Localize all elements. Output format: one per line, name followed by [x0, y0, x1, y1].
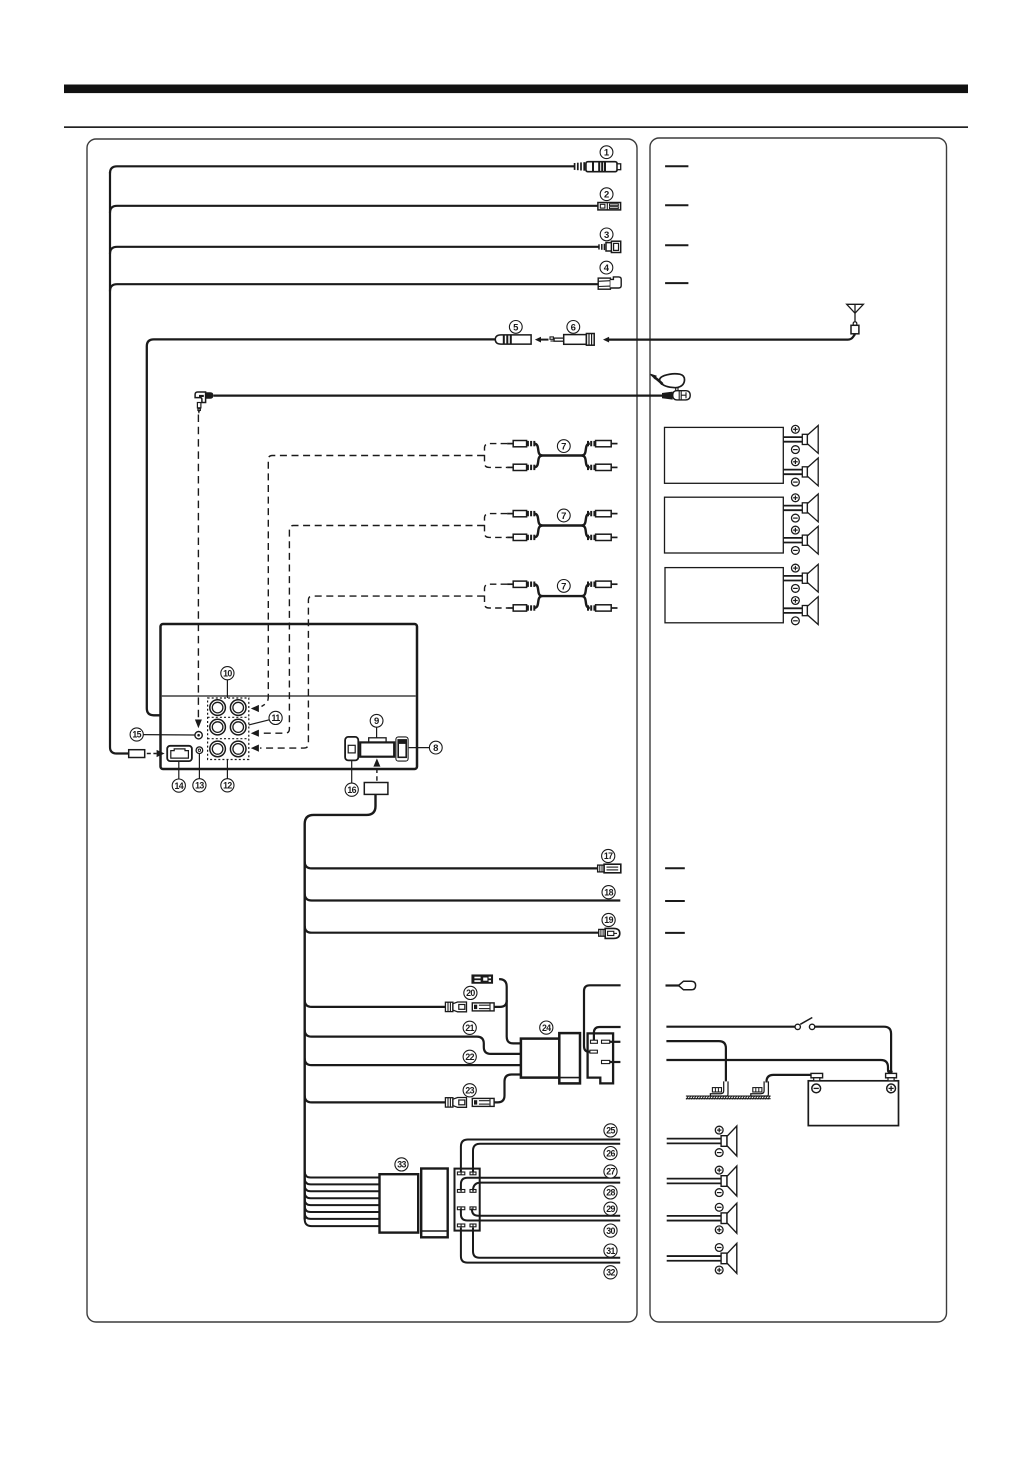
list dash 18: [665, 900, 685, 902]
RCA jack row3 right: [230, 741, 246, 757]
wire 23: [305, 1096, 445, 1103]
wire 18 (bare): [305, 894, 621, 901]
RCA cable 7 (top): [484, 441, 617, 471]
list dash 1: [665, 165, 688, 167]
svg-text:31: 31: [606, 1246, 615, 1256]
wire 27: [461, 1178, 620, 1191]
harness plug into 14: [129, 750, 145, 758]
switch wire to battery plus: [815, 1027, 891, 1072]
label 18: [602, 886, 615, 899]
left panel border: [87, 139, 637, 1322]
svg-text:27: 27: [606, 1167, 615, 1177]
RCA jack row1 left: [210, 700, 226, 716]
wire 32: [461, 1228, 620, 1263]
label 7 top: [557, 440, 570, 453]
amp1 speaker B minus: [792, 478, 800, 486]
label 26: [604, 1147, 617, 1160]
amp1 speaker B: [783, 458, 818, 486]
svg-text:17: 17: [604, 851, 613, 861]
svg-text:16: 16: [347, 785, 356, 795]
illumination lead plug: [666, 981, 696, 990]
svg-text:9: 9: [374, 716, 379, 727]
amp3 speaker B plus: [792, 597, 800, 605]
amp1 speaker B plus: [792, 458, 800, 466]
RCA cable 7 (middle): [484, 511, 617, 541]
rear speaker 1 minus: [715, 1149, 723, 1157]
connector 3: [599, 241, 621, 252]
RCA jack row3 left: [210, 741, 226, 757]
wire 20 tail to tee: [494, 1000, 507, 1007]
svg-text:18: 18: [604, 887, 613, 897]
rear speaker 2 minus: [715, 1189, 723, 1197]
wire 30: [461, 1209, 620, 1221]
iso connector 33: [380, 1169, 448, 1238]
power connector body: [588, 1033, 614, 1083]
junction dot at battery plus: [889, 1070, 893, 1074]
label 10 with leader: [221, 667, 234, 698]
battery wire direct: [666, 1060, 890, 1073]
battery negative lead: [767, 1075, 812, 1083]
svg-text:12: 12: [223, 781, 232, 791]
label 4: [600, 261, 613, 274]
wire 23 tail into fuse block: [494, 1075, 521, 1103]
main power harness wire from plug down: [305, 794, 376, 1219]
wire 17: [305, 862, 598, 869]
list dash 2: [665, 204, 688, 206]
dashed route cable1 to jacks row1: [251, 456, 484, 713]
microphone cable: [214, 394, 665, 396]
label 13 with leader: [193, 754, 206, 792]
wire 31: [473, 1228, 620, 1258]
label 21: [463, 1021, 476, 1034]
rear speaker 1: [667, 1126, 737, 1156]
rear speaker 4: [667, 1243, 737, 1273]
rear speaker 2 plus: [715, 1166, 723, 1174]
harness bundle vertical wire: [110, 172, 129, 754]
wire 21: [305, 1030, 521, 1054]
wire 2: [110, 206, 598, 213]
arrow between 5 and 6: [535, 337, 549, 343]
ground wire to chassis bolt 1: [666, 1041, 726, 1083]
label 31: [604, 1244, 617, 1257]
connector 16 (extension socket): [345, 737, 358, 761]
svg-text:11: 11: [272, 713, 281, 723]
amp2 speaker A plus: [792, 494, 800, 502]
label 25: [604, 1124, 617, 1137]
svg-text:33: 33: [397, 1160, 406, 1170]
speaker harness connector block: [455, 1169, 480, 1231]
amp1 speaker A: [783, 426, 818, 454]
amp3 speaker B: [783, 597, 818, 625]
svg-text:3: 3: [604, 230, 609, 241]
svg-text:7: 7: [561, 581, 566, 592]
mic jack 15: [195, 732, 202, 739]
list dash 19: [665, 932, 685, 934]
amp1 speaker A minus: [792, 446, 800, 454]
RCA jack row2 right: [230, 719, 246, 735]
rear speaker 2: [667, 1166, 737, 1196]
connector 17 (male spade): [598, 864, 621, 873]
label 1: [600, 146, 613, 159]
svg-text:5: 5: [513, 322, 519, 333]
label 28: [604, 1186, 617, 1199]
power connector pin slots: [590, 1040, 610, 1063]
amp2 speaker A: [783, 494, 818, 522]
wire 22: [305, 1058, 521, 1065]
list dash 17: [665, 867, 685, 869]
svg-text:15: 15: [132, 730, 141, 740]
connector 8 (usb memory): [396, 737, 408, 761]
rear speaker 4 minus: [715, 1244, 723, 1252]
amp1 speaker A plus: [792, 425, 800, 433]
ignition switch: [795, 1018, 815, 1030]
label 15 with leader: [130, 728, 195, 741]
label 6: [567, 321, 580, 334]
label 12 with leader: [221, 760, 234, 792]
bullet pair 23: [445, 1098, 494, 1108]
svg-text:7: 7: [561, 511, 566, 522]
chassis bolt 1: [710, 1081, 728, 1096]
svg-text:1: 1: [604, 148, 610, 159]
rear speaker 4 plus: [715, 1266, 723, 1274]
wire 5 lead (antenna extension): [147, 339, 495, 715]
label 7 bottom: [557, 580, 570, 593]
svg-text:29: 29: [606, 1204, 615, 1214]
svg-text:2: 2: [604, 190, 609, 201]
RCA jack row1 right: [230, 700, 246, 716]
svg-text:25: 25: [606, 1126, 615, 1136]
ground stub wire: [610, 1061, 621, 1063]
label 17: [602, 849, 615, 862]
connector 9 (usb socket on unit): [360, 738, 394, 757]
right panel border: [650, 138, 947, 1322]
label 3: [600, 228, 613, 241]
svg-text:6: 6: [571, 322, 576, 333]
amplifier box 3: [665, 568, 783, 623]
bullet pair 20: [445, 1002, 494, 1012]
wire 20: [305, 1000, 445, 1007]
connector 14 (harness socket): [167, 746, 192, 761]
svg-text:23: 23: [465, 1086, 474, 1096]
label 30: [604, 1224, 617, 1237]
svg-text:8: 8: [433, 743, 438, 754]
tee wire up to mated pair and down to fuse block: [499, 979, 521, 1043]
svg-text:19: 19: [604, 915, 613, 925]
rear speaker 3: [667, 1203, 737, 1233]
label 8 with leader: [409, 741, 442, 754]
speaker harness fan-out wires: [305, 1172, 380, 1227]
wire 28: [473, 1183, 620, 1191]
label 19: [602, 913, 615, 926]
label 14 with leader: [172, 761, 185, 792]
amplifier box 2: [665, 497, 784, 553]
connector 4: [598, 277, 621, 289]
amp2 speaker B: [783, 526, 818, 554]
arrow into 6 and antenna lead wire: [603, 334, 855, 342]
amp3 speaker A minus: [792, 585, 800, 593]
svg-text:14: 14: [175, 781, 184, 791]
label 7 middle: [557, 509, 570, 522]
amp3 speaker A plus: [792, 564, 800, 572]
svg-text:21: 21: [465, 1023, 474, 1033]
label 23: [463, 1084, 476, 1097]
RCA jack row2 left: [210, 719, 226, 735]
label 32: [604, 1266, 617, 1279]
connector 1 (S-video plug): [575, 162, 621, 172]
label 16 with leader: [345, 761, 358, 797]
dotted outline around preout jacks: [208, 698, 249, 760]
amplifier box 1: [665, 427, 784, 483]
connector 6 (antenna plug male): [550, 334, 594, 346]
svg-text:10: 10: [223, 668, 232, 678]
mated bullet pair (amp remote): [472, 975, 492, 983]
dashed route cable3 to jacks row3: [251, 596, 484, 752]
connector 5 (antenna jack female): [495, 335, 531, 344]
label 27: [604, 1165, 617, 1178]
svg-text:26: 26: [606, 1148, 615, 1158]
connector 2: [598, 203, 621, 210]
label 29: [604, 1202, 617, 1215]
wire 19: [305, 926, 599, 933]
accessory wire to ignition switch: [666, 1026, 795, 1028]
accessory wire up to panel edge: [594, 1027, 621, 1040]
amp3 speaker A: [783, 564, 818, 592]
svg-text:20: 20: [466, 988, 475, 998]
svg-text:7: 7: [561, 442, 566, 453]
wire 25: [461, 1140, 620, 1172]
wire 29: [472, 1209, 620, 1216]
list dash 3: [665, 244, 688, 246]
rear speaker 3 plus: [715, 1226, 723, 1234]
label 2: [600, 188, 613, 201]
list dash 4: [665, 282, 688, 284]
amp2 speaker A minus: [792, 514, 800, 522]
label 11 with leader: [249, 711, 282, 725]
label 9 with leader: [370, 714, 383, 737]
arrow down to jack 15: [195, 720, 202, 729]
usb extension plug: [364, 783, 388, 795]
label 20: [464, 986, 477, 999]
title bar: [64, 85, 968, 94]
car antenna: [847, 304, 864, 334]
svg-text:32: 32: [606, 1268, 615, 1278]
dashed arrow up into 9: [373, 758, 380, 781]
header rule: [64, 126, 968, 128]
illumination wire up to panel edge: [584, 985, 621, 1051]
amp2 speaker B minus: [792, 547, 800, 555]
svg-text:28: 28: [606, 1188, 615, 1198]
svg-text:13: 13: [195, 781, 204, 791]
label 24: [540, 1021, 553, 1034]
wire 3: [110, 247, 599, 254]
dashed line from mic plug to jack 15: [197, 415, 199, 719]
aux jack 13: [196, 747, 203, 754]
label 22: [463, 1050, 476, 1063]
head unit rear panel box: [161, 624, 418, 769]
right-angle 3.5mm plug: [195, 392, 213, 413]
head unit panel divider: [162, 695, 416, 697]
amp3 speaker B minus: [792, 617, 800, 625]
svg-text:4: 4: [604, 263, 610, 274]
fuse holder 24: [521, 1033, 580, 1083]
connector 19 (female spade): [599, 928, 620, 938]
dashed route cable2 to jacks row2: [251, 526, 484, 737]
label 33: [395, 1158, 408, 1171]
dashed arrow into 14: [147, 750, 165, 757]
microphone with clip: [651, 374, 691, 400]
chassis bolt 2: [751, 1081, 769, 1096]
battery feed stub wire: [610, 1041, 621, 1043]
label 5: [509, 321, 522, 334]
rear speaker 3 minus: [715, 1203, 723, 1211]
RCA cable 7 (bottom): [484, 581, 617, 611]
amp2 speaker B plus: [792, 526, 800, 534]
chassis ground bar: [686, 1096, 771, 1100]
svg-text:22: 22: [465, 1052, 474, 1062]
wire 26: [473, 1144, 620, 1172]
svg-text:30: 30: [606, 1226, 615, 1236]
rear speaker 1 plus: [715, 1126, 723, 1134]
svg-text:24: 24: [542, 1023, 551, 1033]
wire 4: [110, 284, 599, 291]
wire 1: [110, 166, 574, 173]
battery: [808, 1073, 898, 1125]
